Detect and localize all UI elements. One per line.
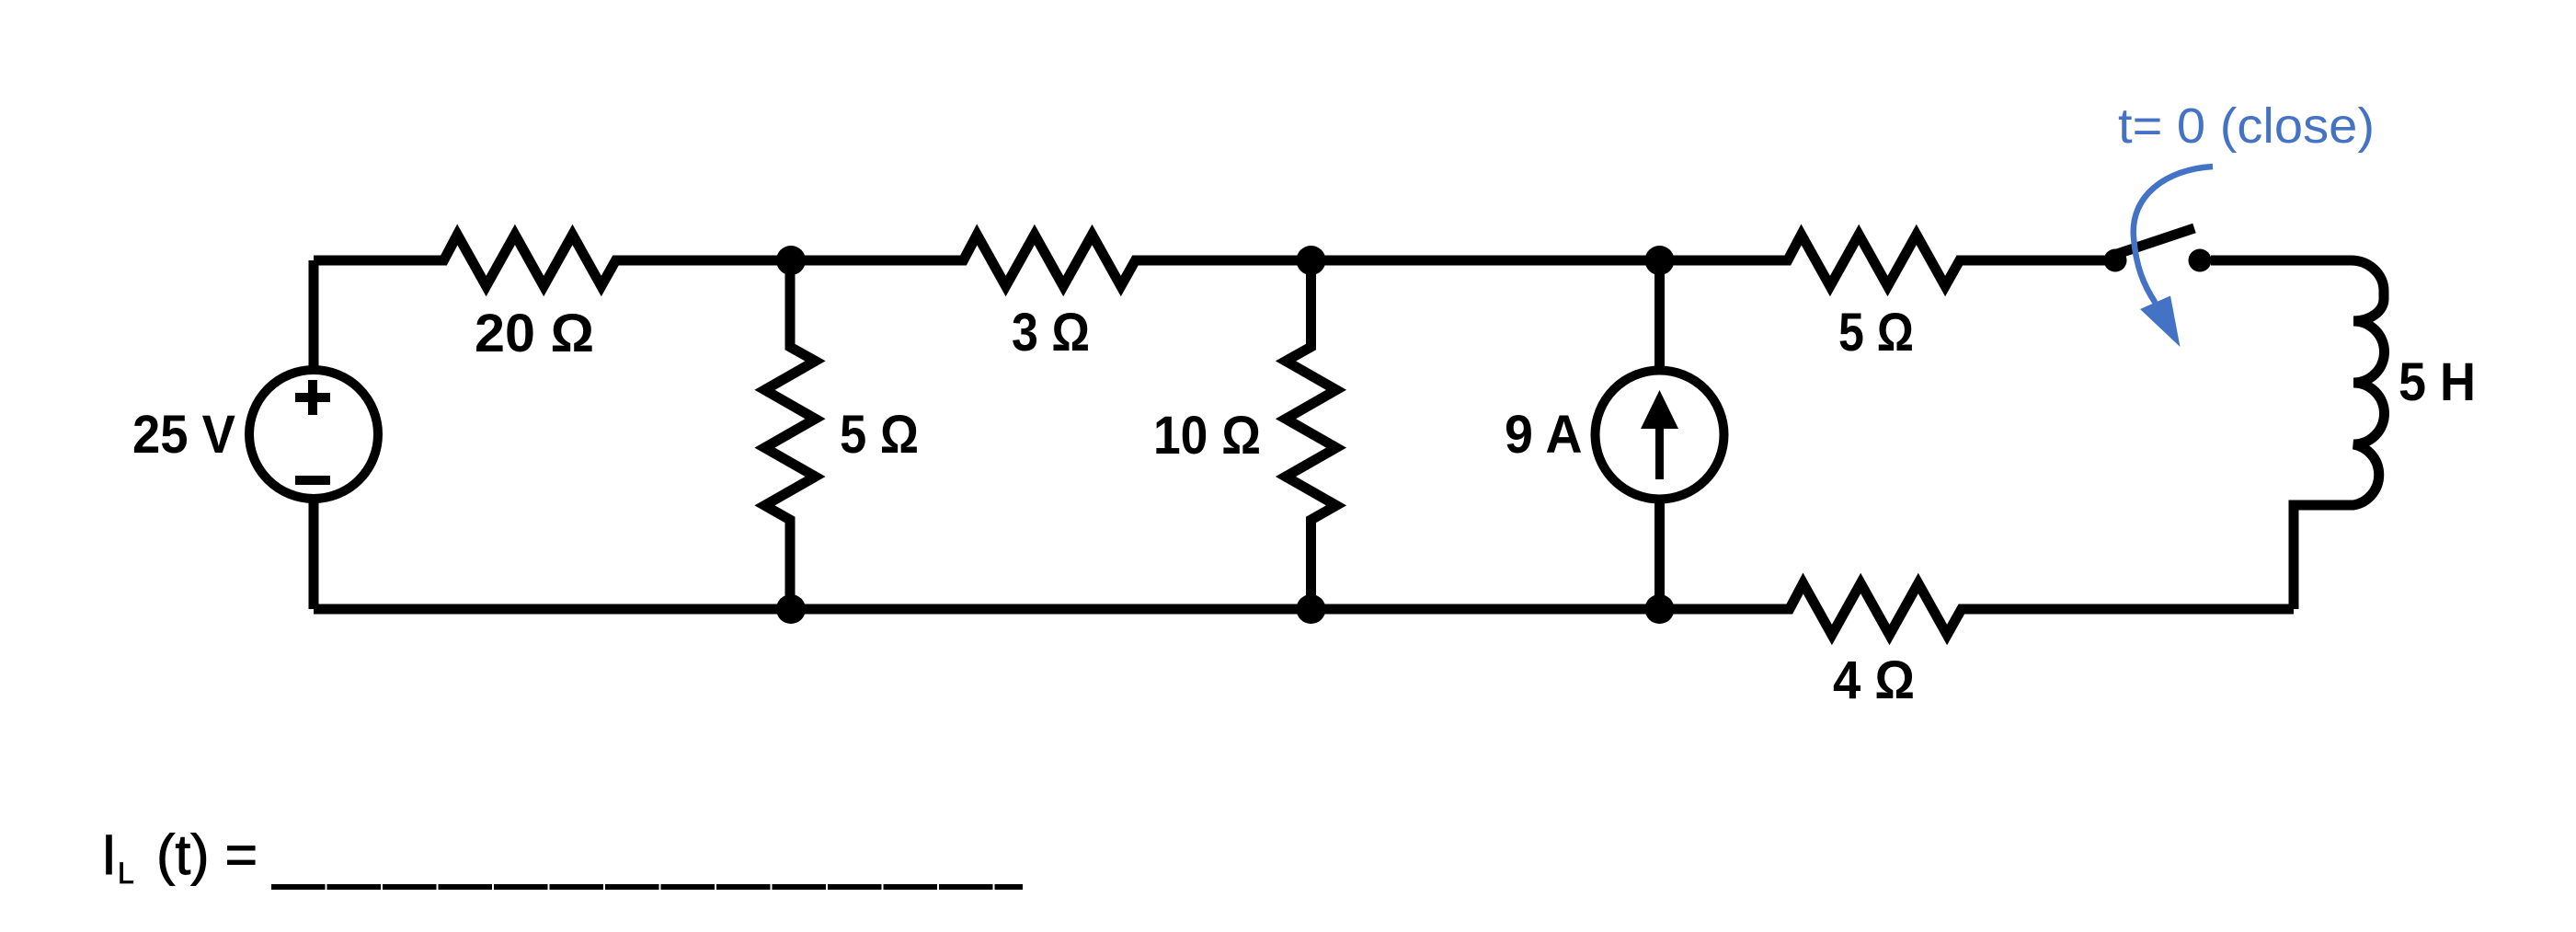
svg-text:5 Ω: 5 Ω bbox=[1838, 303, 1914, 362]
svg-text:5 Ω: 5 Ω bbox=[840, 405, 919, 465]
svg-text:4 Ω: 4 Ω bbox=[1833, 650, 1915, 710]
svg-text:I: I bbox=[101, 823, 117, 886]
svg-text:5 H: 5 H bbox=[2399, 352, 2476, 412]
svg-text:25 V: 25 V bbox=[132, 405, 235, 465]
svg-text:10 Ω: 10 Ω bbox=[1153, 406, 1261, 466]
svg-text:20 Ω: 20 Ω bbox=[475, 304, 594, 363]
svg-text:9 A: 9 A bbox=[1505, 405, 1583, 465]
svg-text:L: L bbox=[118, 857, 134, 890]
svg-text:(t) =: (t) = bbox=[156, 823, 258, 886]
svg-text:3 Ω: 3 Ω bbox=[1012, 303, 1090, 362]
svg-text:t= 0 (close): t= 0 (close) bbox=[2118, 98, 2375, 154]
